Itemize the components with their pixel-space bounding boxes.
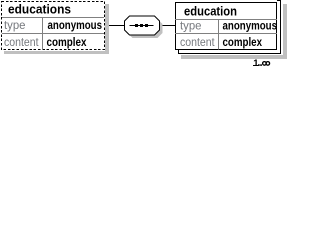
- sequence compositor: shadow: [128, 19, 163, 38]
- svg-text:type: type: [180, 19, 202, 33]
- element education: shadow bottom strip: [181, 55, 287, 59]
- svg-text:education: education: [184, 4, 237, 19]
- svg-text:anonymous: anonymous: [48, 18, 103, 32]
- element education: title separator: [175, 19, 277, 21]
- element educations: shadow bottom strip: [4, 51, 109, 54]
- sequence icon: square 3: [145, 24, 148, 27]
- svg-text:type: type: [4, 18, 26, 32]
- sequence icon: square 1: [135, 24, 138, 27]
- element education: box: [176, 3, 277, 50]
- element educations: box: [2, 2, 105, 50]
- svg-text:educations: educations: [8, 2, 71, 17]
- element education: stacked page (top-right ear): [277, 1, 281, 54]
- element education: stacked page (bottom edge): [179, 50, 282, 54]
- svg-text:anonymous: anonymous: [223, 19, 278, 33]
- element education: column divider: [218, 20, 220, 50]
- element educations: column divider: [42, 18, 44, 50]
- svg-text:1: 1: [253, 58, 259, 68]
- svg-text:content: content: [180, 35, 215, 49]
- element education: row separator: [175, 33, 277, 35]
- svg-text:complex: complex: [223, 35, 263, 49]
- svg-text:content: content: [4, 35, 39, 49]
- sequence icon: square 2: [140, 24, 143, 27]
- sequence icon: line: [130, 25, 154, 27]
- svg-text:complex: complex: [47, 35, 87, 49]
- wire from educations to sequence: [109, 25, 125, 27]
- wire from sequence to education: [163, 25, 177, 27]
- element educations: row separator: [2, 33, 104, 35]
- sequence compositor: octagon: [125, 16, 160, 35]
- infinity glyph: [263, 62, 267, 66]
- element education: shadow right strip: [283, 4, 287, 59]
- element educations: shadow right strip: [105, 4, 109, 54]
- element educations: title separator: [2, 17, 104, 19]
